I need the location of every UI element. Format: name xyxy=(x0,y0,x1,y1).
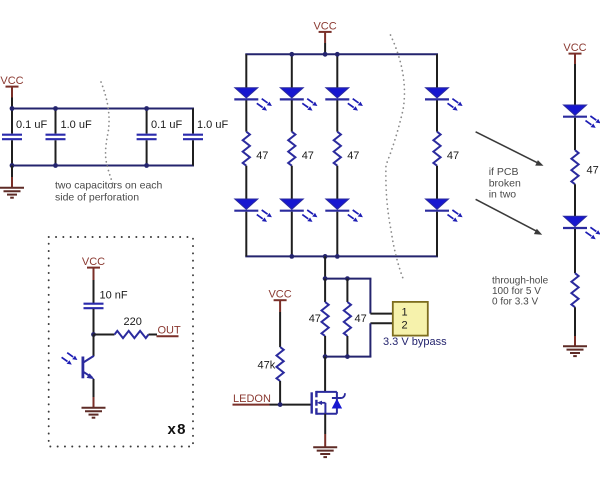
wire C1 bottom lead xyxy=(11,140,13,165)
MOSFET Q2 with body diode xyxy=(312,391,345,415)
svg-text:0.1 uF: 0.1 uF xyxy=(151,119,182,131)
light arrows into phototransistor xyxy=(62,353,78,365)
resistor 47 (parallel left) xyxy=(322,302,329,336)
wire R47k to LEDON line xyxy=(279,381,281,404)
resistor 47k xyxy=(277,347,284,381)
wire VCC stem (sensor cell) xyxy=(93,268,95,280)
wire column 1 top bus to LED xyxy=(245,54,247,88)
junction top bus / column 2 xyxy=(289,52,294,57)
svg-text:47: 47 xyxy=(302,150,314,162)
resistor 47 (column 2) xyxy=(288,132,295,166)
wire source ground stem (red part) xyxy=(324,434,326,447)
wire VCC stem (LED array red part) xyxy=(324,32,326,43)
wire C4 bottom lead xyxy=(192,140,194,165)
svg-text:VCC: VCC xyxy=(82,256,105,268)
resistor 47 (parallel right) xyxy=(344,302,351,336)
junction top bus / VCC stem xyxy=(323,52,328,57)
wire node B horizontal xyxy=(325,356,371,358)
junction bottom bus / column 2 xyxy=(289,254,294,259)
wire strip LED to resistor xyxy=(574,118,576,151)
junction bottom bus / column 3 xyxy=(335,254,340,259)
junction node A / R left xyxy=(323,276,328,281)
wire emitter ground stem (red part) xyxy=(93,397,95,408)
wire bottom bus of capacitor bank xyxy=(11,165,194,167)
capacitor 10 nF xyxy=(84,304,104,309)
wire MOSFET source to ground (black part) xyxy=(324,414,326,434)
ground (sensor cell) xyxy=(82,408,106,418)
power symbol VCC (sensor cell) xyxy=(82,256,105,268)
ground (capacitor bank) xyxy=(0,188,24,198)
resistor 220 xyxy=(115,331,149,338)
wire column 4 top bus to LED xyxy=(436,54,438,88)
wire C2 top lead xyxy=(55,109,57,134)
capacitor C3 0.1 uF xyxy=(137,135,157,140)
wire node B to MOSFET drain xyxy=(324,357,326,392)
wire R47 left bottom lead xyxy=(324,336,326,357)
wire VCC stem (gate pullup red) xyxy=(279,300,281,312)
svg-text:0 for 3.3 V: 0 for 3.3 V xyxy=(492,296,538,307)
connector JP1 3.3 V bypass (yellow box) xyxy=(393,302,428,336)
capacitor C1 0.1 uF xyxy=(2,135,22,140)
wire LED array top bus xyxy=(245,53,438,55)
ground (MOSFET source) xyxy=(313,447,337,457)
capacitor C2 1.0 uF xyxy=(46,135,66,140)
wire node A horizontal xyxy=(325,278,371,280)
svg-text:3.3 V bypass: 3.3 V bypass xyxy=(383,336,447,348)
wire strip LED to resistor 2 xyxy=(574,229,576,273)
wire top bus of capacitor bank xyxy=(11,108,194,110)
wire column 3 LED to resistor xyxy=(336,100,338,131)
svg-text:47: 47 xyxy=(587,165,599,177)
wire emitter to ground (black part) xyxy=(93,379,95,397)
wire capacitor to node xyxy=(93,309,95,335)
wire VCC stem (strip red part) xyxy=(574,54,576,64)
junction top bus / column 3 xyxy=(335,52,340,57)
wire column 2 top bus to LED xyxy=(291,54,293,88)
junction node OUT xyxy=(91,332,96,337)
resistor 47 (column 4) xyxy=(433,132,440,166)
resistor 47 (column 1) xyxy=(243,132,250,166)
wire VCC to capacitor xyxy=(93,280,95,304)
svg-text:VCC: VCC xyxy=(0,75,23,87)
junction LEDON / R47k xyxy=(278,402,283,407)
svg-text:broken: broken xyxy=(489,177,521,189)
svg-text:10 nF: 10 nF xyxy=(100,290,128,302)
wire VCC to strip LED xyxy=(574,64,576,105)
svg-text:in two: in two xyxy=(489,189,517,201)
LED column 3 lower xyxy=(325,199,363,222)
svg-text:1.0 uF: 1.0 uF xyxy=(61,119,92,131)
wire C3 top lead xyxy=(146,109,148,134)
wire VCC to R47k xyxy=(279,312,281,347)
svg-text:VCC: VCC xyxy=(313,20,336,32)
wire bottom bus to node A xyxy=(324,256,326,278)
annotation arrow lower (if PCB broken) xyxy=(476,199,543,234)
power symbol VCC (broken-off strip) xyxy=(563,42,586,54)
wire strip ground stem (red part) xyxy=(574,336,576,346)
wire column 3 LED to bottom bus xyxy=(336,212,338,257)
svg-text:47: 47 xyxy=(447,150,459,162)
wire C2 bottom lead xyxy=(55,140,57,165)
svg-text:1: 1 xyxy=(401,306,407,318)
wire column 2 resistor to LED xyxy=(291,166,293,200)
dotted enclosure box (sensor cell, x8) xyxy=(49,237,193,447)
wire column 3 top bus to LED xyxy=(336,54,338,88)
power symbol VCC (capacitor bank) xyxy=(0,75,23,87)
svg-text:47: 47 xyxy=(355,313,367,325)
svg-text:47k: 47k xyxy=(258,360,276,372)
wire VCC stem (red part) xyxy=(11,87,13,98)
resistor 47 (strip) xyxy=(571,150,578,184)
wire column 1 LED to resistor xyxy=(245,100,247,131)
LED column 2 lower xyxy=(280,199,318,222)
svg-text:LEDON: LEDON xyxy=(233,393,271,405)
junction bottom bus / C1 xyxy=(10,163,15,168)
junction node B / R right xyxy=(345,354,350,359)
LED column 1 upper xyxy=(234,88,272,111)
wire column 4 LED to resistor xyxy=(436,100,438,131)
phototransistor Q1 xyxy=(83,356,95,379)
svg-text:220: 220 xyxy=(124,316,142,328)
junction bottom bus / stem xyxy=(323,254,328,259)
svg-text:VCC: VCC xyxy=(268,289,291,301)
wire node to resistor 220 xyxy=(94,334,115,336)
wire strip resistor 2 to ground (black) xyxy=(574,307,576,336)
junction top bus / C2 xyxy=(53,106,58,111)
port label LEDON xyxy=(233,393,271,405)
wire bypass pin 2 to node B xyxy=(369,323,371,356)
svg-text:47: 47 xyxy=(347,150,359,162)
svg-text:side of perforation: side of perforation xyxy=(55,191,139,203)
LED strip lower xyxy=(563,216,600,239)
wire node to phototransistor collector xyxy=(93,335,95,357)
svg-text:OUT: OUT xyxy=(158,325,182,337)
LED column 1 lower xyxy=(234,199,272,222)
junction top bus / C3 xyxy=(144,106,149,111)
wire C4 top lead xyxy=(192,109,194,134)
ground (broken-off strip) xyxy=(563,346,587,356)
junction bottom bus / C2 xyxy=(53,163,58,168)
power symbol VCC (gate pullup) xyxy=(268,289,291,301)
wire column 4 LED to bottom bus xyxy=(436,212,438,257)
junction bottom bus / C3 xyxy=(144,163,149,168)
LED strip upper xyxy=(563,105,600,128)
wire ground stem (red part) xyxy=(11,177,13,188)
LED column 3 upper xyxy=(325,88,363,111)
wire column 2 LED to bottom bus xyxy=(291,212,293,257)
LED column 4 lower xyxy=(425,199,463,222)
LED column 2 upper xyxy=(280,88,318,111)
perforation dotted line (right) xyxy=(386,35,405,281)
wire bypass pin 2 lead xyxy=(370,322,392,324)
svg-text:if PCB: if PCB xyxy=(489,166,519,178)
resistor 47 (column 3) xyxy=(334,132,341,166)
junction node B / R left xyxy=(323,354,328,359)
wire column 3 resistor to LED xyxy=(336,166,338,200)
wire C3 bottom lead xyxy=(146,140,148,165)
wire LEDON to MOSFET gate xyxy=(270,404,311,406)
port label OUT xyxy=(157,325,182,337)
svg-text:1.0 uF: 1.0 uF xyxy=(197,119,228,131)
wire column 4 resistor to LED xyxy=(436,166,438,200)
wire LED array bottom bus xyxy=(245,255,438,257)
wire resistor to OUT port xyxy=(149,334,158,336)
wire VCC stem to LED top bus xyxy=(324,43,326,54)
junction top bus / C1 xyxy=(10,106,15,111)
wire bottom bus to ground (black part) xyxy=(11,166,13,178)
svg-text:2: 2 xyxy=(401,320,407,332)
wire R47 right bottom lead xyxy=(346,336,348,357)
wire bypass pin 1 lead xyxy=(370,313,392,315)
wire column 2 LED to resistor xyxy=(291,100,293,131)
annotation arrow upper (if PCB broken) xyxy=(476,132,544,166)
wire C1 top lead xyxy=(11,109,13,134)
wire VCC stem to top bus xyxy=(11,98,13,109)
perforation dotted line (left) xyxy=(101,82,116,191)
capacitor C4 1.0 uF xyxy=(183,135,203,140)
wire R47 left top lead xyxy=(324,279,326,302)
resistor (strip bottom) xyxy=(571,273,578,307)
wire column 1 resistor to LED xyxy=(245,166,247,200)
svg-text:47: 47 xyxy=(256,150,268,162)
svg-text:x8: x8 xyxy=(168,421,187,438)
svg-text:VCC: VCC xyxy=(563,42,586,54)
wire column 1 LED to bottom bus xyxy=(245,212,247,257)
wire node A to bypass pin 1 xyxy=(369,279,371,314)
power symbol VCC (LED array) xyxy=(313,20,336,32)
wire R47 right top lead xyxy=(346,279,348,302)
LED column 4 upper xyxy=(425,88,463,111)
svg-text:0.1 uF: 0.1 uF xyxy=(16,119,47,131)
junction node A / R right xyxy=(345,276,350,281)
svg-text:47: 47 xyxy=(309,313,321,325)
svg-text:two capacitors on each: two capacitors on each xyxy=(55,180,163,192)
wire strip resistor to LED xyxy=(574,184,576,216)
